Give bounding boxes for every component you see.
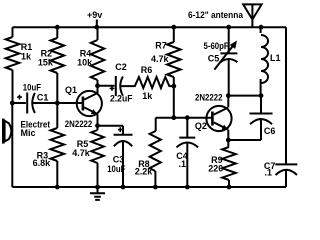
- svg-text:4.7k: 4.7k: [151, 54, 170, 64]
- svg-text:15k: 15k: [38, 58, 54, 68]
- svg-text:R6: R6: [141, 65, 153, 75]
- svg-text:6.8k: 6.8k: [33, 158, 52, 168]
- svg-text:2.2uF: 2.2uF: [110, 94, 133, 104]
- svg-text:L1: L1: [270, 53, 281, 63]
- svg-text:.1: .1: [265, 168, 273, 178]
- svg-text:C5: C5: [208, 53, 220, 63]
- svg-text:5-60pF: 5-60pF: [204, 41, 230, 51]
- svg-text:10uF: 10uF: [23, 83, 42, 93]
- svg-text:Q1: Q1: [65, 85, 77, 95]
- svg-text:Q2: Q2: [195, 121, 207, 131]
- svg-text:.1: .1: [179, 159, 187, 169]
- svg-text:10uF: 10uF: [107, 164, 126, 174]
- svg-text:2N2222: 2N2222: [65, 119, 93, 129]
- svg-text:+9v: +9v: [87, 10, 102, 20]
- svg-text:220: 220: [208, 163, 223, 173]
- svg-text:4.7k: 4.7k: [72, 148, 91, 158]
- svg-text:Mic: Mic: [21, 128, 36, 138]
- svg-text:C2: C2: [115, 62, 127, 72]
- svg-text:R7: R7: [155, 40, 167, 50]
- svg-text:C6: C6: [264, 126, 276, 136]
- svg-text:6-12" antenna: 6-12" antenna: [188, 10, 244, 20]
- svg-text:10k: 10k: [77, 57, 93, 67]
- svg-text:1k: 1k: [21, 51, 32, 61]
- svg-text:2.2k: 2.2k: [135, 167, 154, 177]
- svg-text:1k: 1k: [142, 91, 153, 101]
- svg-text:2N2222: 2N2222: [195, 93, 223, 103]
- svg-text:C1: C1: [37, 93, 49, 103]
